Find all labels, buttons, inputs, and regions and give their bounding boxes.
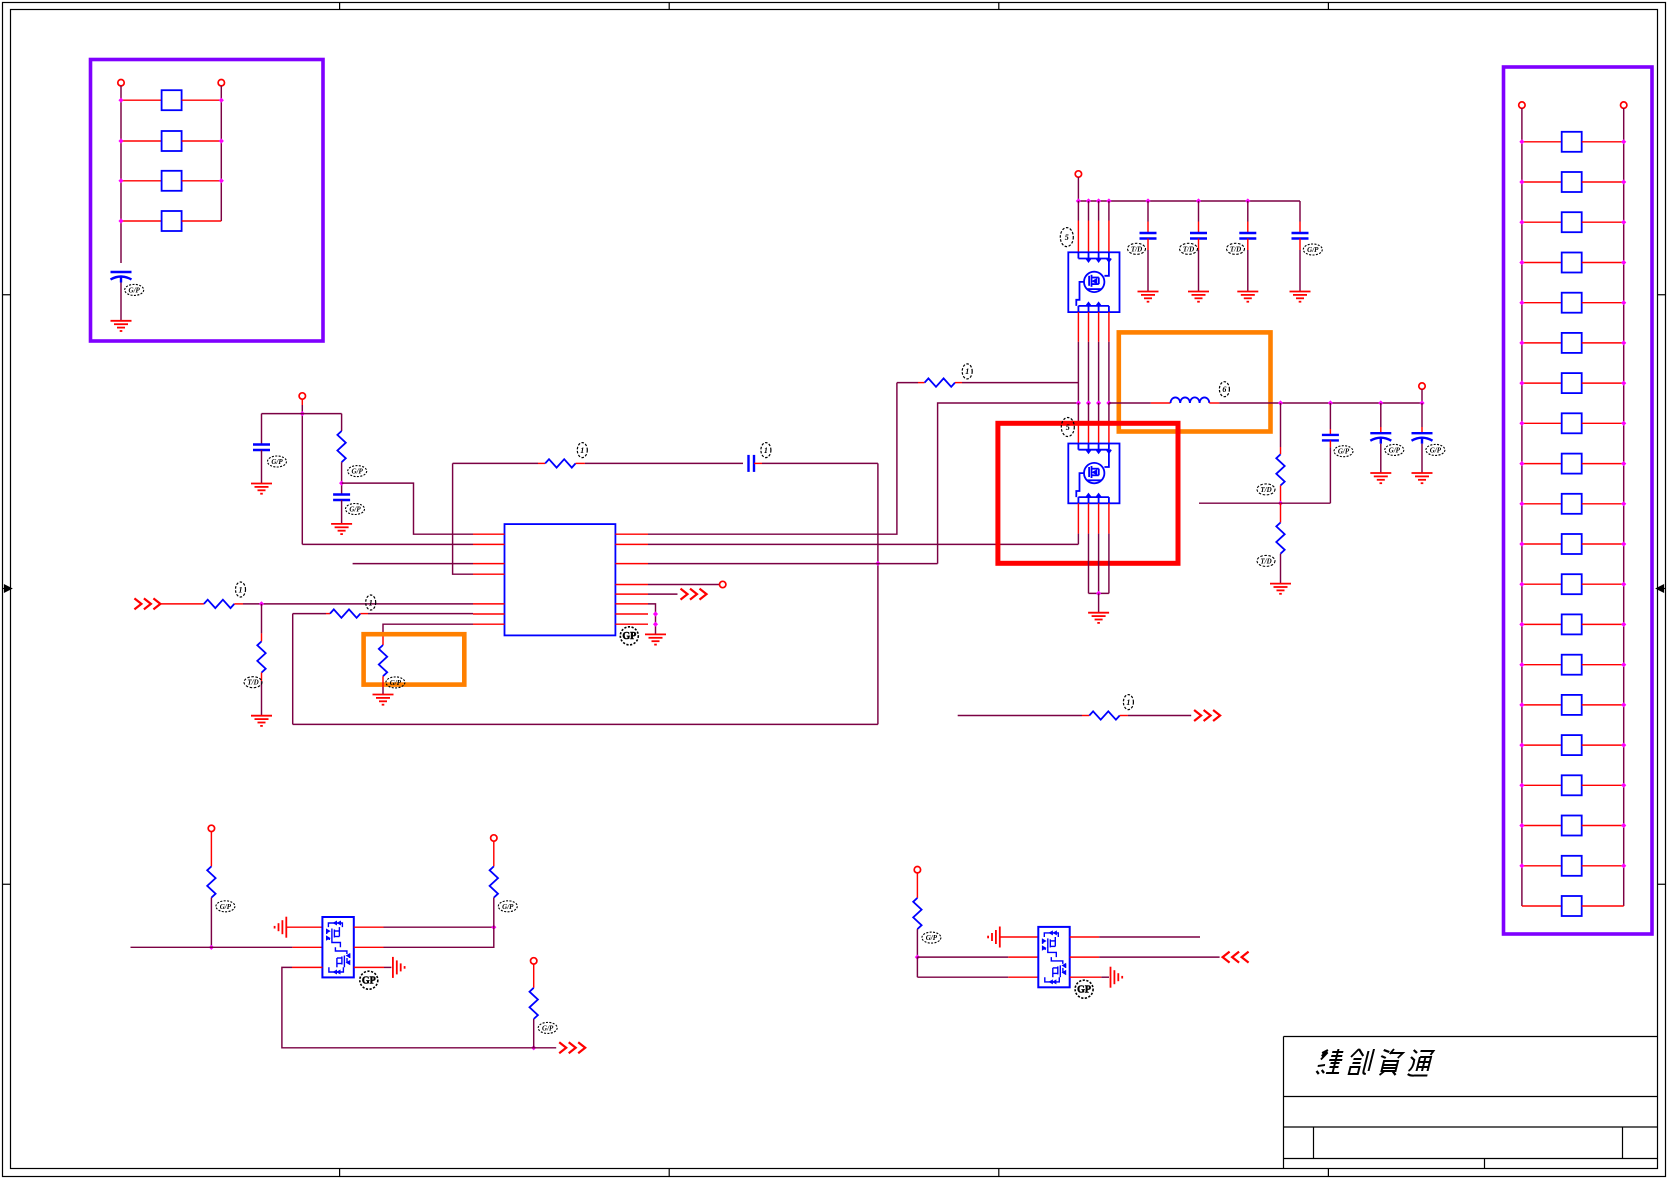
label G/P for R6	[386, 677, 405, 688]
wire	[576, 462, 585, 464]
junction	[219, 178, 224, 183]
wire	[1098, 534, 1100, 594]
border tick	[998, 3, 1000, 10]
wire	[182, 180, 222, 182]
wire	[1099, 936, 1200, 938]
terminal P4	[720, 581, 726, 587]
resistor pack element RN2-18	[1562, 816, 1582, 836]
off-page connector (input)	[134, 598, 160, 609]
wire	[1108, 403, 1110, 423]
capacitor C4	[749, 455, 755, 472]
chassis ground at Q3	[393, 957, 405, 978]
label R7	[962, 364, 972, 379]
junction	[1328, 400, 1333, 405]
wire	[1582, 181, 1624, 183]
ground under C1	[111, 321, 132, 331]
wire	[182, 140, 222, 142]
junction	[219, 138, 224, 143]
svg-text:GP: GP	[622, 631, 636, 642]
svg-text:G/P: G/P	[390, 679, 402, 687]
wire	[1280, 447, 1282, 454]
label C7	[1227, 243, 1245, 254]
wire	[938, 403, 1079, 564]
wire	[493, 841, 495, 866]
wire	[453, 462, 538, 464]
wire	[1329, 447, 1331, 503]
ground under C2	[251, 484, 272, 494]
resistor R6	[379, 645, 387, 676]
pin	[1098, 312, 1100, 342]
svg-text:G/P: G/P	[1430, 446, 1442, 454]
junction	[259, 601, 264, 606]
label R3	[236, 582, 246, 597]
resistor R14	[913, 898, 921, 929]
wire	[1582, 664, 1624, 666]
wire	[1299, 201, 1301, 222]
wire	[1522, 382, 1562, 384]
pin	[1108, 312, 1110, 342]
polarized capacitor C1	[111, 272, 132, 283]
wire	[261, 633, 263, 641]
junction	[1519, 702, 1524, 707]
wire	[1582, 583, 1624, 585]
wire	[121, 220, 162, 222]
wire	[1582, 463, 1624, 465]
wire right rail	[220, 86, 222, 221]
wire pin L7	[383, 624, 473, 636]
pin	[615, 613, 648, 615]
svg-text:GP: GP	[1077, 985, 1091, 996]
wire	[1247, 222, 1249, 234]
wire	[1128, 715, 1191, 717]
resistor R10	[1089, 711, 1119, 719]
wire	[1299, 250, 1301, 292]
wire	[1522, 141, 1562, 143]
wire	[1329, 403, 1331, 429]
svg-text:T/D: T/D	[1260, 557, 1271, 565]
junction	[1621, 340, 1626, 345]
wire	[530, 1047, 556, 1049]
border tick	[1658, 883, 1666, 885]
junction	[1519, 501, 1524, 506]
svg-text:T/D: T/D	[1260, 486, 1271, 494]
junction	[1621, 381, 1626, 386]
capacitor C7	[1239, 233, 1256, 239]
wire loop vertical	[877, 463, 879, 724]
wire	[1101, 976, 1109, 978]
resistor pack element RN2-19	[1562, 856, 1582, 876]
junction	[1519, 863, 1524, 868]
wire	[1299, 222, 1301, 234]
wire	[1582, 623, 1624, 625]
pin	[1077, 503, 1079, 533]
pin	[1088, 423, 1090, 444]
border tick	[668, 3, 670, 10]
border tick	[3, 883, 11, 885]
label G/P for C11	[1426, 444, 1445, 455]
wire	[1582, 342, 1624, 344]
wire	[1522, 302, 1562, 304]
wire	[1198, 222, 1200, 234]
wire	[955, 382, 962, 384]
pin	[473, 573, 505, 575]
wire	[917, 956, 1008, 958]
svg-text:5: 5	[1065, 233, 1069, 242]
wire	[754, 462, 762, 464]
wire	[538, 462, 545, 464]
resistor pack element RN2-2	[1562, 172, 1582, 192]
label G/P for C9	[1334, 446, 1353, 457]
wire	[1147, 250, 1149, 292]
wire	[1088, 201, 1090, 221]
wire	[1098, 403, 1100, 423]
border mid arrow right	[1657, 585, 1666, 592]
wire	[182, 220, 222, 222]
wire	[1582, 744, 1624, 746]
wire	[210, 898, 212, 948]
wire	[341, 500, 343, 524]
wire	[1582, 382, 1624, 384]
pin	[1088, 221, 1090, 253]
pin	[473, 563, 505, 565]
chassis ground at Q3 gate	[275, 917, 287, 938]
highlight box (red)	[998, 423, 1178, 563]
junction	[1621, 743, 1626, 748]
pin	[292, 946, 322, 948]
capacitor C3	[333, 495, 350, 501]
wire pin R4	[648, 584, 720, 586]
junction	[1519, 381, 1524, 386]
wire pin L4	[453, 463, 473, 574]
title block	[1284, 1037, 1658, 1169]
wire pin R1	[648, 383, 897, 535]
wire	[382, 687, 384, 695]
wire	[1098, 593, 1100, 612]
junction	[1519, 582, 1524, 587]
pin	[1070, 936, 1100, 938]
junction	[1378, 400, 1383, 405]
label G/P for R12	[498, 901, 517, 912]
wire	[293, 613, 326, 615]
junction	[1086, 400, 1091, 405]
ground under C8	[1290, 292, 1311, 302]
wire Q2 gate	[1077, 534, 1079, 545]
capacitor C6	[1190, 233, 1207, 239]
wire	[1522, 342, 1562, 344]
wire	[1280, 554, 1282, 584]
chassis ground at Q4 gate	[988, 927, 1000, 948]
resistor pack element RN2-4	[1562, 253, 1582, 273]
terminal P5	[1075, 171, 1081, 177]
wire	[282, 967, 530, 1047]
svg-text:G/P: G/P	[1389, 446, 1401, 454]
junction	[1086, 198, 1091, 203]
resistor R4	[257, 641, 265, 672]
junction	[1519, 220, 1524, 225]
pin	[1098, 423, 1100, 444]
junction	[1076, 400, 1081, 405]
wire	[1108, 342, 1110, 403]
resistor pack element RN1-4	[162, 211, 182, 231]
junction	[1519, 823, 1524, 828]
wire pin R3	[648, 563, 938, 565]
wire	[261, 450, 263, 484]
ground under R4	[251, 716, 272, 726]
wire pin L2	[302, 543, 473, 545]
pin	[1070, 956, 1100, 958]
resistor pack element RN2-8	[1562, 413, 1582, 433]
wire	[1522, 463, 1562, 465]
resistor pack element RN2-17	[1562, 775, 1582, 795]
pin	[286, 926, 322, 928]
wire output	[1219, 402, 1422, 404]
wire	[1522, 825, 1562, 827]
junction	[1621, 823, 1626, 828]
pin	[1088, 503, 1090, 533]
wire	[1582, 905, 1624, 907]
border tick	[1327, 3, 1329, 10]
wire	[1582, 262, 1624, 264]
pin	[1070, 976, 1102, 978]
wire	[1098, 201, 1100, 221]
svg-text:G/P: G/P	[352, 468, 364, 476]
wire	[1299, 239, 1301, 251]
junction	[1621, 300, 1626, 305]
pin	[1077, 423, 1079, 444]
wire	[1421, 389, 1423, 403]
wire loop left	[292, 614, 294, 725]
label G/P for R11	[216, 901, 235, 912]
pin	[473, 533, 505, 535]
junction	[1621, 501, 1626, 506]
wire	[1522, 664, 1562, 666]
pin	[1108, 503, 1110, 533]
wire	[1522, 623, 1562, 625]
wire	[1147, 201, 1149, 222]
wire	[1582, 784, 1624, 786]
svg-text:1: 1	[580, 446, 584, 455]
junction	[1621, 622, 1626, 627]
svg-text:1: 1	[764, 446, 768, 455]
wire	[1522, 784, 1562, 786]
label GP at Q4	[1075, 980, 1093, 998]
junction	[118, 98, 123, 103]
wire	[121, 140, 162, 142]
pin	[292, 966, 322, 968]
resistor pack element RN2-13	[1562, 614, 1582, 634]
highlight box (purple)	[1504, 67, 1653, 934]
wire	[1120, 715, 1128, 717]
title text Wistron InfoComm	[1315, 1049, 1434, 1076]
resistor pack element RN2-6	[1562, 333, 1582, 353]
power MOSFET Q2	[1068, 444, 1119, 504]
pin	[615, 533, 648, 535]
junction	[875, 561, 880, 566]
wire	[301, 405, 303, 544]
pin	[354, 946, 384, 948]
junction	[1519, 743, 1524, 748]
resistor pack element RN2-14	[1562, 655, 1582, 675]
border tick	[3, 294, 11, 296]
wire	[1421, 427, 1423, 433]
wire	[1089, 592, 1109, 594]
junction	[1519, 421, 1524, 426]
label G/P for C2	[268, 456, 287, 467]
label R2	[577, 443, 587, 458]
wire	[384, 966, 391, 968]
junction	[1096, 198, 1101, 203]
resistor R2	[545, 459, 575, 467]
terminal P10	[914, 867, 920, 873]
inductor L1	[1171, 397, 1210, 403]
wire supply bus	[1078, 200, 1300, 202]
terminal P9	[531, 958, 537, 964]
wire	[1109, 402, 1151, 404]
junction	[1145, 198, 1150, 203]
highlight box (purple)	[91, 60, 324, 342]
pin	[1008, 976, 1038, 978]
junction	[1519, 541, 1524, 546]
wire	[1522, 221, 1562, 223]
svg-text:G/P: G/P	[1307, 246, 1319, 254]
ground under C10	[1370, 473, 1391, 483]
polarized capacitor C10	[1370, 433, 1391, 444]
dual MOSFET Q4	[1038, 927, 1069, 987]
capacitor C2	[253, 445, 270, 451]
wire	[1522, 503, 1562, 505]
pin	[1088, 312, 1090, 342]
resistor pack element RN1-1	[162, 90, 182, 110]
wire	[1522, 865, 1562, 867]
resistor R11	[207, 866, 215, 897]
wire	[533, 1019, 535, 1048]
wire	[1582, 422, 1624, 424]
border tick	[339, 3, 341, 10]
resistor pack element RN1-2	[162, 131, 182, 151]
junction	[1621, 421, 1626, 426]
svg-text:1: 1	[369, 598, 373, 607]
junction	[1621, 783, 1626, 788]
label C5	[1128, 243, 1146, 254]
junction	[1419, 400, 1424, 405]
polarized capacitor C11	[1412, 433, 1433, 444]
wire	[1421, 403, 1423, 427]
wire	[160, 603, 204, 605]
wire	[1329, 429, 1331, 435]
label R5	[366, 595, 376, 610]
wire	[121, 180, 162, 182]
capacitor C8	[1292, 233, 1309, 239]
wire	[1088, 534, 1090, 594]
wire	[1522, 704, 1562, 706]
resistor R5	[330, 609, 360, 617]
wire	[1247, 250, 1249, 292]
label R8	[1257, 484, 1275, 495]
svg-text:1: 1	[239, 585, 243, 594]
terminal P2-1	[1519, 102, 1525, 108]
wire	[1522, 262, 1562, 264]
wire pin R5	[648, 593, 678, 595]
junction	[1196, 198, 1201, 203]
label R9	[1257, 555, 1275, 566]
resistor pack element RN2-15	[1562, 695, 1582, 715]
junction	[1621, 179, 1626, 184]
resistor pack element RN2-12	[1562, 574, 1582, 594]
junction	[1621, 541, 1626, 546]
wire to Q1 gate	[962, 382, 1078, 384]
terminal P2-2	[1621, 102, 1627, 108]
wire	[1280, 403, 1282, 447]
wire	[360, 613, 368, 615]
wire	[1099, 956, 1219, 958]
junction	[491, 925, 496, 930]
wire	[384, 926, 494, 928]
wire	[1198, 239, 1200, 251]
border tick	[1327, 1169, 1329, 1177]
junction	[1621, 662, 1626, 667]
junction	[1096, 400, 1101, 405]
junction	[1519, 662, 1524, 667]
junction	[653, 622, 658, 627]
svg-text:G/P: G/P	[926, 934, 938, 942]
junction	[1519, 260, 1524, 265]
wire	[1522, 543, 1562, 545]
junction	[339, 481, 344, 486]
wire	[916, 957, 918, 977]
wire	[382, 636, 384, 645]
ground under C6	[1188, 292, 1209, 302]
wire	[261, 681, 263, 716]
wire	[1077, 201, 1079, 221]
wire	[1108, 534, 1110, 594]
wire	[261, 673, 263, 681]
terminal P8	[491, 835, 497, 841]
wire	[1147, 239, 1149, 251]
wire	[1280, 486, 1282, 504]
label L1	[1219, 382, 1229, 397]
svg-text:GP: GP	[362, 976, 376, 987]
svg-text:1: 1	[1126, 698, 1130, 707]
junction	[1621, 220, 1626, 225]
wire	[243, 603, 473, 605]
junction node VIN	[300, 411, 305, 416]
resistor pack element RN2-5	[1562, 293, 1582, 313]
wire	[1077, 177, 1079, 201]
wire	[917, 976, 1008, 978]
junction	[1519, 179, 1524, 184]
off-page connector (output)	[681, 589, 707, 600]
resistor R9	[1276, 523, 1284, 554]
wire	[1088, 342, 1090, 403]
pin	[473, 613, 505, 615]
wire	[1582, 302, 1624, 304]
ground at U1	[645, 634, 666, 644]
resistor pack element RN2-16	[1562, 735, 1582, 755]
wire loop bottom	[293, 723, 878, 725]
label C4	[761, 443, 771, 458]
junction	[1106, 198, 1111, 203]
pin	[615, 593, 648, 595]
junction	[1106, 400, 1111, 405]
wire	[533, 964, 535, 988]
pin	[1108, 221, 1110, 253]
junction	[209, 945, 214, 950]
pin	[1098, 221, 1100, 253]
off-page connector	[1194, 710, 1220, 721]
resistor pack element RN2-3	[1562, 212, 1582, 232]
pin	[615, 563, 648, 565]
terminal P3	[299, 393, 305, 399]
